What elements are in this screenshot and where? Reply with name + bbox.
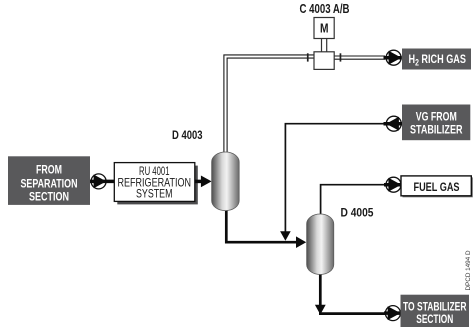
- flange tick discharge: [340, 53, 342, 61]
- svg-text:SEPARATION: SEPARATION: [21, 176, 78, 190]
- motor M of compressor C4003: [314, 18, 334, 39]
- svg-text:DPCD 1494 D: DPCD 1494 D: [466, 250, 472, 291]
- flow arrow: fuel gas outlet: [384, 177, 401, 192]
- flow arrow: to stabilizer outlet: [384, 306, 401, 321]
- svg-text:TO STABILIZER: TO STABILIZER: [403, 301, 467, 313]
- wire: pipe from D4003 top to compressor C4003 suction: [226, 57, 315, 156]
- arrowhead into D4005: [296, 236, 306, 248]
- flow arrow: from separation inlet: [90, 174, 114, 189]
- svg-text:STABILIZER: STABILIZER: [410, 125, 463, 137]
- vessel D4003: [212, 152, 240, 211]
- svg-text:D 4005: D 4005: [341, 206, 374, 220]
- node: FUEL GAS box: [401, 176, 473, 197]
- compressor C4003 body: [314, 52, 334, 70]
- svg-text:FUEL GAS: FUEL GAS: [414, 180, 460, 194]
- node: H2 RICH GAS box: [402, 49, 471, 70]
- svg-text:FROM: FROM: [36, 162, 62, 176]
- wire: D4005 bottoms line down and right: [319, 273, 385, 314]
- flow arrow: VG from stabilizer inlet: [384, 116, 403, 131]
- node: RU 4001 REFRIGERATION SYSTEM box: [114, 163, 198, 205]
- wire: fuel gas line from D4005 top: [321, 185, 385, 215]
- node: FROM SEPARATION SECTION box: [8, 156, 90, 205]
- svg-text:SYSTEM: SYSTEM: [136, 186, 173, 200]
- wire: VG from stabilizer line down to junction: [285, 124, 386, 232]
- svg-text:C 4003 A/B: C 4003 A/B: [300, 2, 350, 16]
- node: TO STABILIZER SECTION box: [401, 295, 470, 327]
- svg-text:D 4003: D 4003: [172, 128, 203, 142]
- node: VG FROM STABILIZER box: [402, 105, 470, 141]
- flange tick suction: [307, 53, 309, 61]
- arrowhead down at D4005 bottoms corner: [315, 305, 326, 315]
- vessel D4005: [307, 214, 334, 275]
- flow arrow: H2 rich gas outlet: [384, 50, 402, 65]
- svg-text:SECTION: SECTION: [29, 190, 69, 204]
- shaft motor to compressor: [322, 39, 327, 52]
- svg-text:M: M: [320, 21, 329, 36]
- wire: pipe from compressor C4003 discharge to H2 rich gas arrow: [334, 55, 385, 59]
- svg-text:VG FROM: VG FROM: [416, 112, 457, 124]
- arrow: RU4001 into D4003: [195, 176, 212, 188]
- junction arrow: VG line into D4005 feed line: [280, 231, 291, 241]
- svg-text:SECTION: SECTION: [416, 314, 453, 326]
- wire: D4003 bottoms to D4005 feed: [226, 209, 296, 242]
